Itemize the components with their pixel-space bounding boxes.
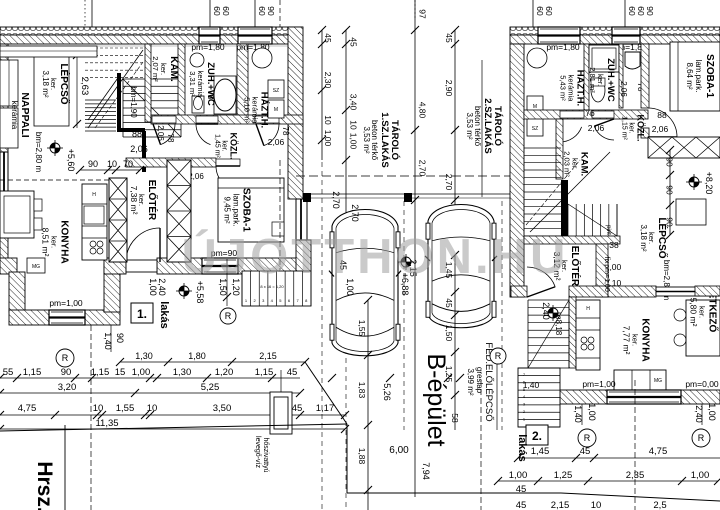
svg-text:R: R [225,311,232,321]
svg-text:pm=1,00: pm=1,00 [603,264,610,292]
svg-text:70: 70 [123,159,133,169]
svg-text:1,30: 1,30 [173,367,192,378]
svg-text:H: H [92,192,96,198]
svg-text:90: 90 [665,185,675,195]
wall zuh/kozl unit 2 [619,44,623,108]
pillar wall eloter west unit 1 [109,178,127,262]
svg-text:KONYHA: KONYHA [59,220,70,263]
svg-text:1,55: 1,55 [116,403,135,414]
top dimension line left window 2 [254,0,256,27]
shower tray unit 2 [589,45,619,72]
svg-text:60: 60 [636,6,646,16]
svg-text:90: 90 [115,333,125,343]
svg-text:7,38 m²: 7,38 m² [129,186,139,215]
exterior wall entry south unit 1 [104,258,126,274]
svg-text:SZOBA-1: SZOBA-1 [704,54,715,98]
door kam unit 1 [152,116,176,123]
dim chain x=368 lower [367,300,369,510]
understair pantry treads unit 1 [123,78,181,80]
svg-text:3,53 m²: 3,53 m² [465,112,474,139]
svg-text:R: R [584,433,591,443]
svg-text:+5,60: +5,60 [66,149,76,172]
svg-text:45: 45 [516,484,527,495]
external steps unit 2 [518,368,560,427]
svg-text:1,15: 1,15 [23,367,42,378]
window east wall unit 1 lower [296,199,307,241]
level mark mid unit 2 [548,308,558,318]
wc unit 2 [591,78,605,102]
car 1 [332,210,398,356]
pergola post 1 [303,193,311,202]
svg-text:SZ: SZ [273,88,279,94]
svg-text:2,63: 2,63 [79,77,90,96]
svg-text:2,5: 2,5 [653,500,666,510]
top dimension line left window 1 [209,0,211,27]
svg-text:levegő-víz: levegő-víz [254,436,261,468]
exterior wall top of unit 1 masonry [0,35,302,44]
survey line x=482 [481,60,483,197]
parking bay dashed lines [321,162,323,510]
wall eloter/konyha unit 2 [596,244,608,297]
svg-text:NAPPALI: NAPPALI [19,92,31,137]
dim chain x=455 lower [454,255,456,430]
svg-text:2,81 m²: 2,81 m² [588,67,597,93]
stairs unit 2 upper flight [524,147,561,149]
window in top wall unit 2 right [612,27,640,44]
svg-text:58: 58 [450,413,460,423]
svg-text:2.SZ.LAKÁS: 2.SZ.LAKÁS [482,98,493,153]
svg-text:90: 90 [266,6,276,16]
svg-text:ÉTKEZŐ: ÉTKEZŐ [707,292,720,333]
svg-text:8 x 16 = 1,20: 8 x 16 = 1,20 [260,284,284,289]
stairs eloter to konyha unit 2 [528,299,569,301]
svg-text:1,00: 1,00 [349,133,359,150]
svg-text:90: 90 [665,157,675,167]
svg-text:3,99 m²: 3,99 m² [466,368,475,395]
door hazt unit 1 [255,116,279,123]
svg-text:lam.park.: lam.park. [694,60,703,93]
wall konyha north unit 2 [608,286,656,297]
svg-text:2,70: 2,70 [350,204,360,222]
svg-text:2,15: 2,15 [551,500,570,510]
chain y=377 main [0,377,300,379]
svg-text:1,80: 1,80 [188,351,206,361]
machines unit 2 [527,96,543,114]
pergola post 2 [404,193,412,202]
svg-text:2,70: 2,70 [444,174,454,191]
svg-text:60: 60 [221,6,231,16]
svg-text:10: 10 [323,115,333,125]
boundary line front [0,424,347,431]
boiler unit 1 [252,48,272,68]
svg-text:10: 10 [147,403,158,414]
window konyha north unit 2 [656,287,720,296]
svg-text:KAM.: KAM. [168,56,179,82]
svg-text:38: 38 [609,240,619,250]
svg-text:78: 78 [206,91,215,100]
svg-text:9,45 m²: 9,45 m² [223,196,232,223]
svg-text:90: 90 [61,367,72,378]
svg-text:1,00: 1,00 [132,367,151,378]
counter below top wall unit 1 [0,46,97,57]
svg-text:ÚJOTTHON.HU: ÚJOTTHON.HU [182,229,569,284]
svg-text:MG: MG [32,264,40,270]
exterior wall corner bottom-left unit 1 [0,258,17,274]
washbasin unit 2 [625,52,640,69]
svg-text:1,00: 1,00 [323,130,333,147]
svg-text:pm=1,80: pm=1,80 [546,42,580,52]
wall south of wet rooms unit 1 [151,115,303,124]
svg-text:15: 15 [115,367,126,378]
door zuh unit 1 [196,116,218,123]
svg-text:45: 45 [444,33,454,43]
svg-text:3,18 m²: 3,18 m² [639,224,648,251]
washbasin unit 1 [190,53,204,67]
stair wall unit 2 [561,180,568,236]
dim chain D x=455 [454,30,456,240]
svg-text:45: 45 [349,37,359,47]
svg-text:11,35: 11,35 [95,418,118,429]
bed unit 2 [670,42,720,111]
svg-text:MG: MG [654,378,662,384]
wc unit 1 [192,96,204,113]
pillar wall szoba-1 west unit 1 [167,160,191,262]
svg-text:1,00: 1,00 [587,403,597,421]
svg-text:90: 90 [88,159,98,169]
nappali furniture left wall [0,60,18,106]
mg box unit 1 [27,258,45,273]
svg-text:SZOBA-1: SZOBA-1 [241,188,252,232]
svg-text:R: R [495,351,502,361]
svg-text:5,25: 5,25 [201,382,220,393]
stair flight lower unit 1 [85,99,116,101]
wall kam west unit 1 [145,44,151,122]
svg-text:2,90: 2,90 [444,80,454,97]
dashed site lines bottom [480,380,482,510]
svg-text:2,70: 2,70 [331,191,341,209]
svg-text:KÖZL.: KÖZL. [229,133,239,160]
level mark +8,20 [689,177,699,187]
window kitchen south unit 1 [49,310,85,325]
svg-text:4,75: 4,75 [18,403,37,414]
door zuh unit 2 [592,111,614,118]
svg-text:1,83: 1,83 [357,382,367,399]
svg-text:bm=1,90: bm=1,90 [129,86,138,118]
exterior wall south unit 2 [560,390,720,404]
exterior wall east of unit 1 [288,27,303,199]
counter bottom unit 2 [614,370,666,390]
boiler unit 2 [527,48,547,68]
wall stairs south unit 2 [524,236,620,244]
svg-text:+8,20: +8,20 [704,172,714,195]
exterior wall top of unit 1 insulation [0,27,302,35]
svg-text:76: 76 [585,108,595,118]
dashed axis verticals left [90,325,92,510]
svg-text:1,00: 1,00 [148,278,158,296]
dining table nappali [0,191,34,238]
level mark +6,88 [401,257,411,267]
svg-text:45: 45 [292,403,303,414]
svg-text:1,15: 1,15 [91,367,110,378]
svg-text:ZUH.+WC: ZUH.+WC [605,58,616,102]
svg-text:ELŐTÉR: ELŐTÉR [569,246,582,287]
label lakas 1 [131,303,153,323]
svg-text:2,30: 2,30 [323,72,333,89]
top survey lines [91,0,93,27]
svg-text:2,40: 2,40 [157,278,167,296]
table unit 2 szoba [676,199,706,225]
svg-text:1,00: 1,00 [691,470,710,481]
window in top wall unit 1 left [199,27,220,44]
svg-text:10: 10 [93,403,104,414]
r circle kitchen south [56,349,74,367]
svg-text:Hrsz.: Hrsz. [33,461,56,510]
svg-text:2,06: 2,06 [156,125,165,141]
svg-text:2,06: 2,06 [652,124,669,134]
svg-text:SZ: SZ [532,126,538,132]
svg-text:2.: 2. [532,429,542,443]
svg-text:60: 60 [544,6,554,16]
wall szoba-1 west unit 2 [641,44,649,108]
svg-text:1,45: 1,45 [531,446,550,457]
svg-text:45: 45 [444,298,454,308]
stair flight upper unit 1 [85,47,145,49]
svg-text:LÉPCSŐ: LÉPCSŐ [58,63,71,104]
svg-text:60: 60 [212,6,222,16]
svg-text:1,00: 1,00 [707,403,717,421]
svg-text:1,40: 1,40 [103,332,113,350]
svg-text:60: 60 [535,6,545,16]
svg-text:lam.park.: lam.park. [232,194,241,227]
svg-text:H: H [586,306,590,312]
exterior wall left of unit 1 lower [0,228,8,260]
svg-text:pirit: pirit [605,225,611,235]
svg-text:1,88: 1,88 [357,448,367,465]
eloter door unit 2 [527,267,555,287]
shower unit 1 [214,79,236,111]
level mark +5,60 [50,143,60,153]
nappali konyha divider [0,179,109,181]
wall zuh/hazt unit 1 [237,44,248,122]
svg-text:2,07 m²: 2,07 m² [151,56,160,82]
level mark +5,58 [179,286,189,296]
svg-text:45: 45 [323,33,333,43]
svg-text:ker.: ker. [628,122,635,133]
exterior wall kitchen west unit 1 [9,272,25,312]
svg-text:1,40: 1,40 [573,405,583,423]
svg-text:5,10 m²: 5,10 m² [243,97,252,123]
svg-text:M: M [274,107,278,113]
svg-text:55: 55 [3,367,14,378]
svg-text:R: R [698,433,705,443]
boundary vertical left [64,425,66,510]
closet unit 2 [648,137,720,158]
svg-text:4,80: 4,80 [418,102,428,119]
sink unit 1 [84,206,104,224]
exterior wall top of unit 2 masonry [510,35,720,44]
svg-text:1,17: 1,17 [316,403,335,414]
svg-text:3,31 m²: 3,31 m² [188,71,197,97]
svg-text:fix: fix [603,257,610,265]
chain y=392 [0,392,300,394]
svg-text:8,64 m²: 8,64 m² [685,62,694,89]
svg-text:hőszivattyú: hőszivattyú [262,437,269,472]
car 2 [428,205,494,328]
stair run diagonal unit 1 [88,50,143,128]
terrace steps unit 1 [242,271,311,306]
svg-text:+5,58: +5,58 [195,281,205,304]
svg-text:KÖZL.: KÖZL. [636,115,646,142]
dim chain 90 x=670 [669,150,671,235]
svg-text:4,75: 4,75 [649,446,668,457]
chain 90 10 70 [80,169,140,171]
svg-text:88: 88 [132,129,142,139]
svg-text:60: 60 [257,6,267,16]
svg-text:1,50: 1,50 [444,325,454,342]
svg-text:1.: 1. [137,307,147,321]
label lakas 2 [526,425,548,445]
svg-text:bm=2,80 m: bm=2,80 m [34,132,43,173]
svg-text:pm=1,00: pm=1,00 [582,379,616,389]
svg-text:1,15: 1,15 [255,367,274,378]
window in left wall unit 1 [0,152,8,228]
exterior wall kitchen east unit 1 [104,264,120,312]
stair well outline unit 1 [34,53,69,126]
r circles south unit 2 [578,429,596,447]
svg-text:1,40: 1,40 [523,380,540,390]
svg-text:1,00: 1,00 [509,470,528,481]
dim chain C x=415 [414,0,416,20]
svg-text:3,53 m²: 3,53 m² [362,126,371,153]
svg-text:pm=1,00: pm=1,00 [49,298,83,308]
dining table unit 2 [686,300,720,356]
svg-text:2,03 m²: 2,03 m² [563,151,572,177]
svg-text:90: 90 [645,6,655,16]
wall hazt/zuh unit 2 [584,44,589,110]
wall szoba-1 north unit 1 [126,158,216,167]
svg-text:kerámia: kerámia [10,101,19,130]
pergola beam line [303,193,510,195]
exterior wall kitchen south unit 1 [9,310,120,325]
stairs unit 2 diagonals [530,152,610,232]
svg-text:3,50: 3,50 [213,403,232,414]
svg-text:3,20: 3,20 [58,382,77,393]
exterior wall east unit 1 corner [296,240,311,274]
exterior wall left of unit 1 upper [0,44,8,152]
svg-text:5,80 m²: 5,80 m² [689,298,699,327]
entry door unit 1 [126,260,157,272]
svg-text:2,70: 2,70 [418,160,428,177]
svg-text:10: 10 [591,500,602,510]
machines M SZ unit 1 [268,80,284,98]
stove unit 1 [90,241,96,247]
svg-text:B-épület: B-épület [422,353,450,446]
roof overhang dash line [296,175,512,177]
svg-text:2,06: 2,06 [268,137,285,147]
svg-text:ELŐTÉR: ELŐTÉR [146,180,159,221]
r circle terrace [220,308,236,324]
stairs unit 2 lower treads [567,204,569,236]
wall stairwell/kitchen unit 2 [569,297,576,368]
svg-text:2,15: 2,15 [259,351,277,361]
svg-text:10: 10 [349,120,359,130]
svg-text:2,06: 2,06 [588,123,605,133]
svg-text:10: 10 [107,159,117,169]
svg-text:3,18 m²: 3,18 m² [41,70,50,97]
exterior wall south szoba-1 unit 1 [157,258,311,274]
chain y=415 long [0,414,345,416]
door hazt unit 2 [560,111,584,118]
window in top wall unit 2 left [538,27,580,44]
r circle fed [490,348,506,364]
wall east konyha unit 2 strip [695,286,720,296]
svg-text:7,77 m²: 7,77 m² [622,326,632,355]
svg-text:1,25: 1,25 [554,470,573,481]
svg-text:2,06: 2,06 [130,144,148,154]
stair wall unit 1 [117,73,121,131]
svg-text:R: R [62,353,69,363]
svg-text:1,55: 1,55 [357,320,367,337]
svg-text:5,43 m²: 5,43 m² [559,75,568,101]
bed unit 1 [218,178,284,242]
svg-text:45: 45 [287,367,298,378]
dim chain B x=346 [345,30,347,230]
svg-text:6,00: 6,00 [389,445,409,456]
dim chain A x=322 [321,30,323,160]
svg-text:KONYHA: KONYHA [640,318,651,361]
chain 1,30 15 1,00 eloter [120,361,305,363]
wall kam unit 2 [556,119,563,179]
svg-text:45: 45 [516,500,527,510]
wall south wet rooms unit 2 [524,110,648,119]
wall west eloter low unit 2 [511,286,527,297]
svg-text:2,35: 2,35 [626,470,645,481]
svg-text:ker.: ker. [221,140,228,151]
svg-text:7,94: 7,94 [421,462,431,480]
kitchen counter unit 1 [82,184,107,260]
svg-text:2,06: 2,06 [619,81,628,97]
svg-text:M: M [533,104,537,110]
svg-text:1,15 m²: 1,15 m² [621,116,628,140]
svg-text:97: 97 [418,9,428,19]
exterior wall top of unit 2 insulation [510,27,720,35]
chain right y=480 [498,480,718,482]
svg-text:1,30: 1,30 [135,351,153,361]
window in top wall unit 1 right [238,27,272,44]
svg-text:78: 78 [281,127,290,136]
door szoba-1 unit 2 [648,108,677,137]
svg-text:3,40: 3,40 [349,94,359,111]
stove unit 2 [581,337,587,343]
chain right y=458 [518,457,720,459]
svg-text:60: 60 [627,6,637,16]
svg-text:1.SZ.LAKÁS: 1.SZ.LAKÁS [379,112,390,167]
door szoba-1 unit 1 [216,159,240,166]
svg-text:8,51 m²: 8,51 m² [41,228,51,257]
chain y=428 [0,428,345,430]
svg-text:45: 45 [580,446,591,457]
wall kam east unit 1 [178,44,185,122]
top dimension line right window 1 [532,0,534,27]
top dimension line right window 2 [624,0,626,27]
label 2,63 [76,50,78,128]
svg-text:pm=0,00: pm=0,00 [685,379,719,389]
svg-text:1,20: 1,20 [215,367,234,378]
svg-text:2,40: 2,40 [694,405,704,423]
heat pump [270,392,292,434]
svg-text:1,45 m²: 1,45 m² [214,134,221,158]
svg-text:5,26: 5,26 [382,383,392,401]
